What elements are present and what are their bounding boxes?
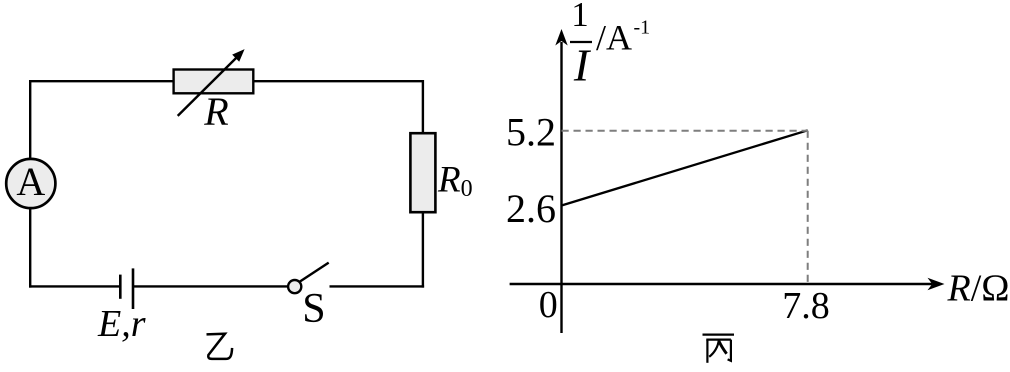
svg-text:-1: -1 [634, 17, 651, 39]
switch S [288, 263, 329, 294]
svg-text:R: R [203, 89, 228, 134]
label 丙 (Chinese caption of graph) [703, 335, 735, 363]
dashed vertical at 7.8 [807, 131, 809, 283]
svg-text:S: S [302, 286, 325, 332]
svg-text:2.6: 2.6 [506, 186, 556, 231]
wire bottom-right [330, 285, 425, 287]
resistor R (variable, box) [174, 70, 254, 94]
svg-text:I: I [573, 40, 592, 91]
svg-text:R0: R0 [437, 160, 473, 203]
wire bottom-left [29, 285, 120, 287]
arrow of variable resistor R [178, 49, 245, 116]
label 乙 (Chinese caption of circuit) [207, 334, 233, 359]
dashed horizontal at 5.2 [562, 130, 808, 132]
y-axis [555, 29, 567, 333]
x-axis [510, 278, 945, 291]
wire right [422, 80, 424, 288]
wire bottom-middle [134, 285, 288, 287]
svg-text:R/Ω: R/Ω [947, 268, 1010, 310]
svg-text:0: 0 [539, 284, 558, 326]
wire top [30, 80, 423, 82]
graph line 1/I vs R [562, 130, 808, 205]
svg-text:E,r: E,r [97, 303, 146, 345]
svg-text:/A: /A [596, 18, 632, 58]
resistor R0 [410, 133, 435, 212]
y-axis label 1/I per A [570, 0, 650, 90]
ammeter A [6, 159, 55, 208]
svg-text:1: 1 [571, 0, 589, 34]
battery E,r [120, 268, 133, 309]
svg-text:7.8: 7.8 [782, 285, 830, 327]
wire left [29, 80, 31, 288]
svg-text:5.2: 5.2 [506, 110, 556, 155]
svg-text:A: A [16, 159, 45, 204]
